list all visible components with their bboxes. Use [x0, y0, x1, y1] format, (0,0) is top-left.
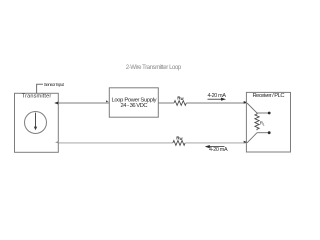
power supply box — [109, 88, 158, 117]
resistor Rw (bottom) — [173, 141, 185, 146]
current source circle — [25, 112, 47, 134]
svg-text:4-20 mA: 4-20 mA — [209, 147, 228, 153]
svg-text:W: W — [181, 97, 184, 101]
svg-text:Sensor Input: Sensor Input — [44, 82, 65, 87]
svg-text:Transmitter: Transmitter — [22, 93, 52, 99]
sensor input leader — [37, 84, 43, 93]
receiver internal: bottom stub — [257, 132, 268, 134]
wire: transmitter to resistor Rw bottom — [58, 142, 172, 144]
arrowhead into receiver (bottom) — [244, 141, 247, 144]
receiver internal: top diagonal — [247, 103, 257, 113]
arrow 4-20 mA (top, pointing right) — [208, 98, 224, 100]
wire: resistor to receiver (bottom) — [185, 142, 246, 144]
transmitter box — [15, 93, 59, 152]
resistor Rw (top) — [174, 101, 186, 106]
wire: power supply to resistor Rw top — [158, 102, 174, 104]
svg-text:2-Wire Transmitter Loop: 2-Wire Transmitter Loop — [126, 65, 182, 71]
receiver internal: top stub — [257, 112, 268, 114]
svg-text:L: L — [263, 123, 265, 127]
receiver box — [246, 92, 290, 152]
arrowhead into power supply — [106, 100, 109, 102]
terminal dot bottom — [268, 131, 271, 134]
arrowhead into transmitter — [54, 102, 58, 105]
svg-text:W: W — [180, 137, 183, 141]
resistor RL (vertical) — [255, 113, 259, 130]
wire: transmitter to power supply (top) — [55, 102, 110, 104]
terminal dot top — [268, 112, 271, 115]
arrowhead into receiver (top) — [244, 101, 247, 104]
svg-text:Receiver / PLC: Receiver / PLC — [253, 93, 285, 99]
arrow 4-20 mA (bottom, pointing left) — [208, 146, 225, 148]
svg-text:4-20 mA: 4-20 mA — [207, 93, 226, 99]
arrowhead into transmitter (bottom) — [55, 141, 58, 143]
wire: resistor to receiver (top) — [186, 102, 246, 104]
svg-text:24 - 36 VDC: 24 - 36 VDC — [121, 103, 148, 109]
receiver internal: bottom diagonal — [247, 133, 257, 143]
current source arrow — [35, 113, 37, 128]
